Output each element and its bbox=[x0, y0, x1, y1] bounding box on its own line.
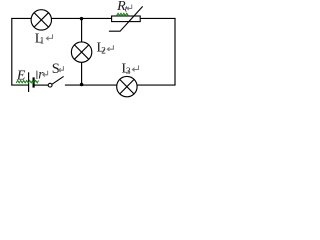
node A junction dot top bbox=[80, 17, 84, 21]
switch S lever bbox=[52, 76, 64, 84]
return mark after S bbox=[59, 66, 64, 72]
return mark after L3 bbox=[132, 65, 138, 71]
node B junction dot bottom bbox=[80, 83, 84, 87]
lamp L1 bbox=[31, 10, 51, 30]
return mark after L1 bbox=[46, 34, 52, 40]
wire: top from left corner to lamp L1 bbox=[11, 17, 31, 19]
wire: bottom from L3 to node B bbox=[65, 84, 117, 86]
wire: top from L1 to rheostat box bbox=[52, 17, 112, 19]
battery E short plate bbox=[32, 77, 34, 87]
wire: right vertical bbox=[174, 18, 176, 85]
wire: bottom from right corner to lamp L3 bbox=[137, 84, 176, 86]
svg-text:S: S bbox=[52, 61, 60, 77]
lamp L2 bbox=[71, 42, 91, 62]
wire: left vertical bbox=[11, 18, 13, 85]
rheostat Rt adjuster arm bbox=[109, 6, 143, 31]
wire: bottom from switch to battery bbox=[34, 84, 49, 86]
lamp L3 bbox=[117, 76, 137, 96]
svg-text:3: 3 bbox=[126, 66, 131, 76]
battery E long plate bbox=[28, 72, 30, 92]
wire: middle branch lower stub bbox=[81, 62, 83, 85]
grammar squiggle under Rt bbox=[117, 13, 129, 15]
svg-text:2: 2 bbox=[101, 45, 106, 55]
grammar squiggle under E r bbox=[16, 81, 38, 83]
wire: middle branch upper stub bbox=[81, 18, 83, 42]
return mark after Rt bbox=[127, 5, 132, 11]
return mark after L2 bbox=[107, 45, 113, 51]
svg-text:1: 1 bbox=[40, 36, 45, 46]
return mark after r bbox=[43, 71, 48, 77]
rheostat Rt box bbox=[112, 16, 141, 22]
wire: bottom from battery to left corner bbox=[11, 84, 28, 86]
text caret before r bbox=[36, 71, 38, 79]
wire: top from rheostat to right corner bbox=[140, 17, 175, 19]
switch S contact circle bbox=[48, 83, 52, 87]
